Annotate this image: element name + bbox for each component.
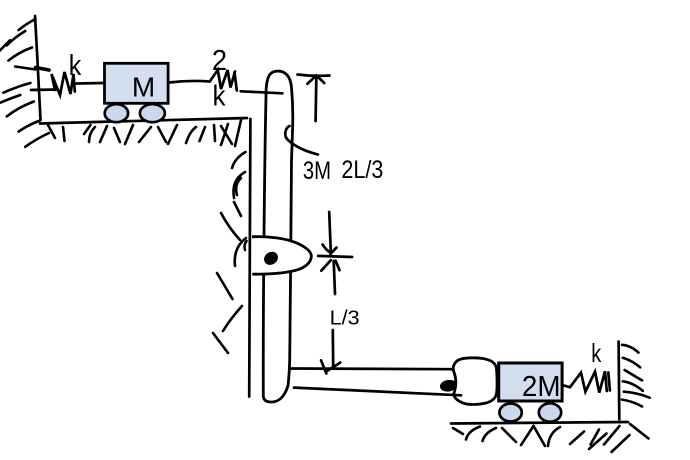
svg-text:3M: 3M	[303, 157, 331, 185]
svg-text:k: k	[213, 81, 226, 113]
svg-text:k: k	[69, 50, 82, 82]
svg-text:2: 2	[212, 45, 227, 77]
svg-text:2L/3: 2L/3	[341, 156, 383, 184]
svg-text:2M: 2M	[522, 371, 561, 403]
svg-text:L/3: L/3	[330, 308, 360, 330]
svg-text:M: M	[132, 71, 155, 102]
svg-text:k: k	[591, 338, 602, 368]
